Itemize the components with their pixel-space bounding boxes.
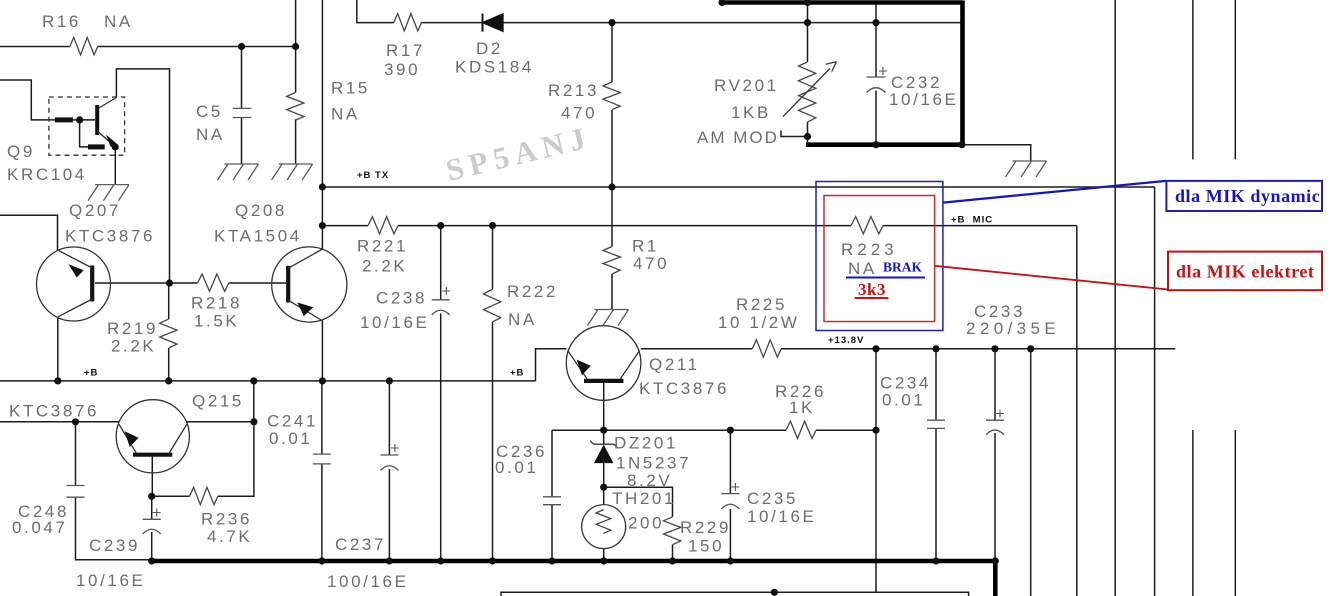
svg-text:1KB: 1KB: [731, 103, 771, 122]
svg-text:NA: NA: [196, 125, 225, 144]
wire RV201 top lead: [807, 23, 809, 62]
capacitor C5: [233, 108, 251, 117]
annotation blue pointer line: [943, 181, 1166, 203]
node +B / R219: [165, 377, 172, 384]
node top bus a: [718, 0, 725, 6]
wire node to C241 junction vertical: [253, 381, 255, 422]
svg-text:AM MOD: AM MOD: [697, 128, 779, 147]
wire right of R223 to corner: [883, 225, 1077, 227]
capacitor C241: [313, 454, 331, 464]
wire Q208 collector vertical from top edge: [321, 0, 323, 249]
wire TH201 top lead: [603, 487, 605, 505]
wire right edge vertical A bottom: [1192, 430, 1194, 596]
svg-text:C237: C237: [335, 535, 386, 554]
wire bottom box outline: [501, 592, 969, 596]
wire R213 top lead: [611, 23, 613, 82]
capacitor C235: [721, 483, 739, 509]
svg-text:C235: C235: [747, 489, 798, 508]
wire C237 vertical top: [388, 381, 390, 455]
svg-text:0.047: 0.047: [12, 518, 68, 537]
wire right edge vertical B top: [1234, 0, 1236, 159]
wire DZ201 bottom lead: [603, 463, 605, 488]
wire right vertical from +13.8 rail: [1030, 349, 1032, 596]
svg-text:SP5ANJ: SP5ANJ: [442, 119, 594, 188]
node Q211 / DZ201: [600, 427, 607, 434]
wire R17 corner from top edge: [357, 0, 394, 23]
svg-text:R16: R16: [42, 12, 81, 31]
capacitor C238: [432, 287, 451, 315]
svg-text:390: 390: [384, 60, 420, 79]
svg-text:2.2K: 2.2K: [111, 337, 156, 356]
capacitor C236: [543, 497, 561, 505]
node Q215 right / R236: [250, 418, 257, 425]
thermistor TH201: [582, 505, 626, 549]
svg-text:RV201: RV201: [714, 76, 779, 95]
node bus C234: [932, 557, 939, 564]
node bus corner: [992, 557, 999, 564]
resistor R17: [394, 14, 422, 31]
wire R219 bottom lead: [168, 348, 170, 381]
annotation blue label box: [1166, 181, 1322, 211]
wire long vertical right bus: [1114, 0, 1116, 596]
svg-text:dla MIK elektret: dla MIK elektret: [1176, 262, 1314, 282]
wire Q9 base to bar: [73, 119, 95, 121]
wire R236 left lead: [152, 495, 190, 497]
node +13.8V right branch: [1027, 345, 1034, 352]
node +13.8V / C233: [991, 345, 998, 352]
wire RV201 bottom lead: [807, 122, 809, 142]
wire Q9 collector up and over: [116, 69, 169, 283]
annotation red pointer line: [935, 266, 1168, 290]
svg-text:R236: R236: [201, 510, 252, 529]
wire vertical +B MIC drop: [1076, 226, 1078, 596]
svg-text:DZ201: DZ201: [614, 434, 678, 453]
node bottom box: [771, 589, 778, 596]
wire C5 top lead: [241, 47, 243, 109]
node bus C235: [727, 557, 734, 564]
node bus R229: [669, 557, 676, 564]
transistor Q207: [37, 247, 111, 321]
svg-text:1.5K: 1.5K: [194, 312, 239, 331]
wire C239 bottom lead: [151, 532, 153, 561]
wire thick top bus horizontal: [722, 0, 963, 5]
svg-text:KTA1504: KTA1504: [214, 227, 302, 246]
wire C233 vertical bottom: [994, 433, 996, 561]
svg-text:220/35E: 220/35E: [966, 319, 1060, 338]
node Q9 base: [76, 116, 83, 123]
svg-text:R225: R225: [736, 295, 787, 314]
potentiometer RV201: [783, 62, 837, 122]
svg-text:10/16E: 10/16E: [360, 313, 429, 332]
wire C237 vertical bottom: [388, 469, 390, 561]
wire thick bus corner to right ground: [963, 145, 1031, 161]
svg-text:1K: 1K: [789, 398, 815, 417]
svg-text:8.2V: 8.2V: [627, 471, 672, 490]
svg-text:KDS184: KDS184: [455, 58, 534, 77]
svg-text:10/16E: 10/16E: [747, 507, 816, 526]
svg-text:R17: R17: [386, 41, 425, 60]
node +B / Q207 emitter: [54, 377, 61, 384]
node +13.8V / C234: [932, 345, 939, 352]
wire C234 vertical top: [935, 349, 937, 420]
wire R1 top lead: [611, 187, 613, 247]
resistor R225: [752, 340, 781, 357]
svg-text:C238: C238: [376, 289, 427, 308]
node RV201 bottom: [804, 133, 811, 140]
node +B / Q208 emitter: [319, 377, 326, 384]
node +B TX / Q208: [319, 183, 326, 190]
svg-text:3k3: 3k3: [858, 280, 886, 299]
svg-text:NA: NA: [848, 259, 877, 278]
wire R219 top lead: [168, 283, 170, 319]
wire R218 to Q208 base: [229, 282, 286, 284]
svg-text:470: 470: [561, 104, 597, 123]
svg-text:150: 150: [688, 537, 724, 556]
wire R222 bottom lead: [492, 322, 494, 561]
wire R226 junction vertical: [875, 349, 877, 430]
svg-text:R218: R218: [191, 294, 242, 313]
resistor R222: [484, 289, 501, 322]
node +B / C237: [386, 377, 393, 384]
diode D2: [483, 14, 504, 32]
wire R236 right lead and corner up: [218, 422, 254, 497]
resistor R236: [190, 487, 218, 504]
svg-text:+B TX: +B TX: [357, 170, 389, 181]
svg-text:R15: R15: [331, 79, 370, 98]
node R221 / C238: [437, 222, 444, 229]
ground under R1: [588, 310, 629, 326]
node bus C237: [386, 557, 393, 564]
capacitor C239: [143, 509, 161, 535]
svg-text:Q208: Q208: [235, 201, 287, 220]
capacitor C233: [986, 410, 1004, 435]
wire R222 top lead: [492, 226, 494, 290]
annotation red underline: [855, 297, 889, 299]
wire C235 top lead: [729, 430, 731, 493]
svg-text:Q215: Q215: [192, 392, 244, 411]
annotation red label box: [1168, 252, 1322, 291]
svg-text:TH201: TH201: [612, 489, 676, 508]
resistor R229: [664, 517, 681, 545]
node R226 / C234 branch: [872, 427, 879, 434]
wire TH201 bottom lead: [603, 549, 605, 562]
svg-text:10 1/2W: 10 1/2W: [718, 313, 800, 332]
wire vertical above node R15: [295, 0, 297, 92]
wire C234 vertical bottom: [935, 428, 937, 561]
svg-text:KTC3876: KTC3876: [9, 402, 99, 421]
svg-text:R223: R223: [841, 240, 898, 259]
wire R16 right to node C5/R15: [98, 46, 296, 48]
transistor Q211: [566, 326, 641, 401]
zener DZ201: [590, 441, 617, 463]
transistor Q9 (digital, dashed box): [49, 97, 125, 155]
svg-text:BRAK: BRAK: [883, 260, 923, 275]
wire Q9 internal resistor drop: [80, 120, 88, 147]
svg-text:R219: R219: [107, 319, 158, 338]
transistor Q208: [272, 247, 347, 322]
wire C235 bottom lead: [729, 509, 731, 561]
svg-text:+B MIC: +B MIC: [951, 215, 993, 226]
node Q207 base junction: [166, 279, 173, 286]
wire Q215 right lead to corner: [187, 421, 254, 423]
resistor R213: [603, 82, 620, 110]
annotation blue box around R223: [816, 182, 943, 331]
wire C239 top lead: [151, 496, 153, 519]
svg-text:KTC3876: KTC3876: [639, 379, 729, 398]
wire AM MOD stub: [781, 131, 808, 137]
wire Q208 emitter down: [321, 321, 323, 381]
svg-text:R1: R1: [632, 237, 659, 256]
node bus C236: [548, 557, 555, 564]
svg-text:200: 200: [628, 514, 664, 533]
ground under Q9: [88, 185, 129, 201]
wire C241 vertical top: [321, 381, 323, 454]
capacitor C237: [380, 444, 399, 471]
node DZ201 / TH201 / R229: [600, 484, 607, 491]
wire C248 bottom lead to bus: [76, 497, 152, 560]
resistor R16: [70, 38, 98, 55]
svg-text:D2: D2: [476, 39, 503, 58]
resistor R219: [160, 319, 177, 348]
wire D2 to thick bus with nodes: [503, 22, 962, 24]
svg-text:Q9: Q9: [7, 142, 35, 161]
svg-text:C241: C241: [267, 412, 318, 431]
transistor Q215: [116, 400, 189, 473]
svg-text:0.01: 0.01: [495, 458, 539, 477]
resistor R223: [851, 217, 883, 234]
svg-text:C239: C239: [89, 536, 140, 555]
node RV201 top: [804, 19, 811, 26]
wire Q207 collector top: [0, 215, 58, 250]
node top bus b: [804, 0, 811, 6]
capacitor C234: [927, 420, 945, 428]
node +B TX / R213: [608, 183, 615, 190]
wire C238 top lead: [440, 226, 442, 300]
node Q215 base / C248: [72, 418, 79, 425]
resistor R1: [603, 247, 620, 275]
resistor R221: [368, 217, 398, 234]
node bus C241: [318, 557, 325, 564]
node bus TH201: [600, 557, 607, 564]
wire C233 vertical top: [994, 349, 996, 420]
wire Q211 emitter down: [603, 383, 605, 430]
svg-text:KTC3876: KTC3876: [65, 227, 155, 246]
node Q215 emitter / C239: [148, 493, 155, 500]
svg-text:2.2K: 2.2K: [362, 257, 407, 276]
svg-text:0.01: 0.01: [269, 429, 313, 448]
svg-text:R229: R229: [680, 518, 731, 537]
node bus C239: [148, 557, 155, 564]
wire Q207 base: [95, 282, 198, 284]
wire R1 bottom lead to ground: [611, 274, 613, 310]
capacitor C232: [867, 67, 888, 93]
resistor R218: [198, 274, 229, 291]
wire RV201 top vertical to thick top bus: [807, 3, 809, 23]
wire R15 bottom lead to ground: [295, 119, 297, 164]
wire between R221 and R223: [398, 225, 851, 227]
node +B / C241 branch: [250, 377, 257, 384]
svg-text:Q207: Q207: [69, 201, 121, 220]
node R221 / R222: [489, 222, 496, 229]
wire +13.8V rail: [781, 348, 1175, 350]
svg-text:R222: R222: [507, 282, 558, 301]
ground right of C232 bus: [1006, 161, 1047, 177]
svg-text:+B: +B: [510, 368, 524, 379]
wire DZ201 top lead: [603, 430, 605, 444]
resistor R226: [786, 421, 816, 438]
wire +B MIC rail left part with R221 R223: [322, 225, 368, 227]
wire Q211 collector to R225: [641, 348, 752, 350]
node Q208 / R221: [319, 222, 326, 229]
svg-text:+B: +B: [84, 368, 98, 379]
svg-text:100/16E: 100/16E: [327, 572, 409, 591]
wire right edge vertical A top: [1192, 0, 1194, 159]
annotation blue underline: [846, 277, 925, 279]
wire +B TX rail: [322, 186, 1154, 188]
node R16/R15: [292, 43, 299, 50]
wire R229 bottom lead: [672, 545, 674, 562]
svg-text:R213: R213: [548, 81, 599, 100]
svg-text:470: 470: [633, 254, 669, 273]
node thick bus corner: [958, 141, 965, 148]
svg-text:Q211: Q211: [649, 355, 700, 374]
wire R17 to D2: [421, 22, 483, 24]
wire drop from R226 node to bottom box: [875, 430, 877, 592]
wire R16 left lead: [0, 46, 70, 48]
node Q9 emitter: [112, 143, 119, 150]
wire Q215 emitter down: [151, 455, 153, 496]
wire C236 bottom lead: [551, 505, 553, 561]
wire thick top bus bottom horizontal: [806, 142, 963, 147]
ground bus thick horizontal: [152, 559, 996, 564]
wire Q9 emitter to ground: [114, 147, 116, 185]
wire DZ to R229: [604, 487, 673, 517]
node C232 top: [872, 19, 879, 26]
wire vertical drop from +B TX corner: [1154, 187, 1156, 596]
wire R213 bottom lead to node B-TX: [611, 110, 613, 187]
ground bus thick corner down: [993, 561, 998, 596]
wire Q207 emitter down: [57, 317, 59, 381]
wire Q9 input: [0, 80, 55, 120]
wire C5 bottom lead to ground: [241, 118, 243, 165]
svg-text:1N5237: 1N5237: [616, 454, 691, 473]
svg-text:+13.8V: +13.8V: [828, 335, 864, 346]
wire C232 bottom lead: [875, 91, 877, 145]
svg-text:NA: NA: [508, 310, 537, 329]
ground under C5: [218, 164, 259, 180]
wire DZ201 node rail: [552, 429, 786, 431]
wire +B step up to Q211: [536, 349, 567, 381]
svg-text:0.01: 0.01: [882, 391, 926, 410]
wire C248 top lead: [75, 422, 77, 486]
svg-text:10/16E: 10/16E: [889, 90, 958, 109]
wire C241 vertical bottom: [321, 464, 323, 561]
wire thick top bus vertical: [960, 1, 965, 145]
node D2/R213: [608, 19, 615, 26]
node R16/C5: [238, 43, 245, 50]
svg-text:NA: NA: [331, 105, 360, 124]
svg-text:4.7K: 4.7K: [207, 527, 252, 546]
wire C238 bottom lead: [440, 314, 442, 562]
resistor R15: [287, 92, 304, 120]
svg-text:NA: NA: [104, 12, 133, 31]
capacitor C248: [67, 486, 85, 498]
node DZ201 / C235: [727, 427, 734, 434]
wire Q215 base from left: [0, 421, 119, 423]
node C232 bottom: [872, 141, 879, 148]
svg-text:dla MIK dynamic: dla MIK dynamic: [1175, 186, 1320, 206]
wire C232 top lead: [875, 3, 877, 78]
wire right edge vertical B bottom: [1234, 430, 1236, 596]
wire R226 right lead: [816, 429, 876, 431]
svg-text:C5: C5: [196, 102, 223, 121]
wire C236 corner down: [551, 430, 553, 497]
annotation red box around R223: [824, 196, 935, 322]
svg-text:R221: R221: [357, 237, 408, 256]
svg-text:10/16E: 10/16E: [76, 571, 145, 590]
node +13.8V / R226: [872, 345, 879, 352]
node bus C238: [437, 557, 444, 564]
svg-text:KRC104: KRC104: [7, 165, 87, 184]
ground under R15: [272, 164, 313, 180]
wire +B bus left: [0, 380, 536, 382]
node bus R222: [489, 557, 496, 564]
